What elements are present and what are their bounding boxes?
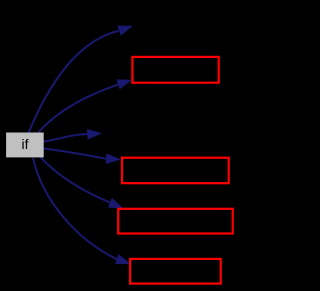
- arrowhead C: [87, 129, 101, 139]
- wire edge A (if -> top hidden node): [29, 31, 119, 133]
- node box 4 (red, truncated callee): [130, 259, 221, 284]
- node box 2 (red, truncated callee): [122, 158, 229, 184]
- node box 1 (red, truncated callee): [132, 57, 218, 83]
- node if (current function, grey): [6, 133, 44, 158]
- arrowhead B: [117, 80, 132, 90]
- node box 3 (red, truncated callee): [118, 209, 233, 234]
- arrowhead D: [106, 154, 120, 164]
- arrowhead F: [116, 255, 131, 264]
- svg-text:if: if: [22, 136, 29, 152]
- wire edge C (if -> middle hidden node): [44, 134, 88, 141]
- wire edge D (if -> node 2): [44, 149, 108, 159]
- arrowhead A: [118, 26, 133, 35]
- wire edge E (if -> node 3): [41, 157, 111, 202]
- arrowhead E: [108, 198, 123, 208]
- wire edge B (if -> node 1): [39, 84, 119, 132]
- wire edge F (if -> node 4): [33, 158, 117, 259]
